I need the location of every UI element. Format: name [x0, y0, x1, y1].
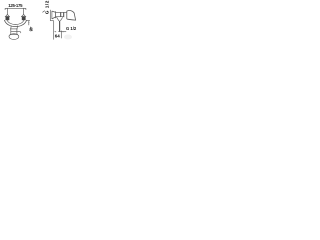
48 dimension extension bottom [17, 31, 21, 33]
48 bottom arrow [20, 32, 21, 34]
64 dimension line [58, 31, 66, 33]
spout cylinder band [11, 31, 17, 33]
escutcheon flange [51, 11, 53, 19]
leader tick [42, 11, 44, 13]
right wall union flange [21, 15, 26, 17]
knob end [67, 11, 76, 21]
spout cylinder right edge [16, 29, 18, 35]
spout cylinder top cap [10, 28, 18, 30]
extension stub right union [23, 8, 25, 14]
svg-text:G 1/2: G 1/2 [44, 0, 50, 14]
svg-text:48: 48 [28, 27, 33, 32]
escutcheon cone [52, 11, 56, 19]
48 dimension line [28, 21, 30, 25]
arm groove 1 [59, 12, 62, 16]
arrowheads 125-175 [5, 7, 25, 10]
wall line [49, 10, 51, 21]
funnel to spout [11, 26, 18, 29]
faint ghost mark [64, 35, 72, 40]
64 extension line left [53, 21, 55, 40]
48 dimension extension top [27, 20, 30, 22]
dimension line 125-175 [5, 8, 26, 10]
svg-text:G 1/2: G 1/2 [66, 26, 77, 31]
left wall union cap [6, 14, 9, 16]
48 arrowhead [28, 21, 29, 23]
left wall union body [6, 17, 10, 20]
bow inner curve [7, 20, 24, 25]
64 arrowheads [54, 31, 64, 32]
bow outer curve [4, 20, 26, 27]
arm top edge [56, 11, 67, 13]
arm groove 2 [62, 12, 65, 17]
spout cylinder bottom cap [10, 33, 18, 35]
down pipe [59, 21, 61, 32]
right wall union body [22, 17, 26, 20]
arm bottom edge [56, 16, 64, 18]
right wall union cap [22, 14, 25, 16]
bell outlet ellipse [9, 34, 19, 40]
svg-text:125-175: 125-175 [8, 3, 23, 8]
side funnel [57, 17, 63, 21]
extension stub left union [6, 8, 8, 14]
64 extension line right [60, 31, 62, 39]
left wall union flange [5, 15, 10, 17]
wall jog [50, 20, 53, 22]
spout cylinder left edge [10, 29, 12, 35]
svg-text:64: 64 [55, 34, 61, 39]
